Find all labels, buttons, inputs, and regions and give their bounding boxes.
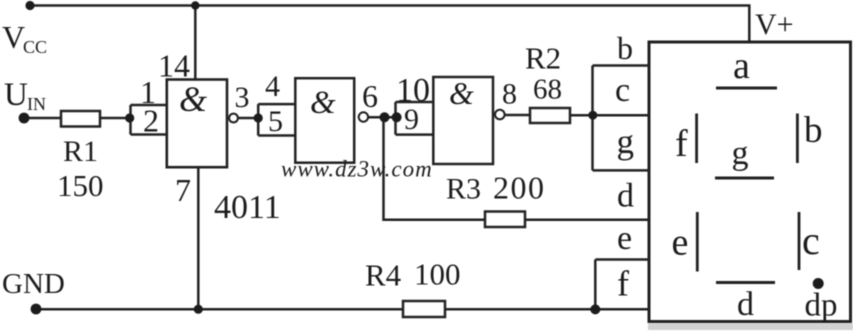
wire R3 to pin d: [525, 219, 650, 222]
segment d bar: [716, 281, 775, 284]
svg-text:www.dz3w.com: www.dz3w.com: [281, 156, 433, 181]
segment f bar: [695, 114, 698, 164]
node GND terminal: [31, 304, 42, 315]
label Vcc: [2, 19, 47, 57]
svg-text:e: e: [672, 222, 689, 264]
gate U1C 4011 NAND: [433, 77, 493, 164]
wire pin 6 out: [368, 116, 396, 119]
node pin 6 junction A: [380, 112, 390, 122]
wire pins 9-10 tie: [396, 102, 434, 135]
svg-text:V+: V+: [755, 8, 794, 41]
svg-text:4: 4: [265, 70, 280, 103]
svg-text:7: 7: [175, 172, 191, 208]
resistor R2: [530, 108, 570, 123]
svg-text:b: b: [617, 30, 633, 66]
wire node 6 down to R3: [384, 117, 486, 220]
wire GND to R4: [36, 308, 403, 311]
svg-text:CC: CC: [23, 37, 47, 57]
display DS1 seven-segment: [649, 42, 851, 322]
wire pin 14: [194, 6, 197, 80]
node pin 14 rail junction: [191, 1, 199, 9]
wire pin 8 to R2: [505, 114, 531, 117]
node Vcc rail terminal: [25, 1, 34, 10]
svg-text:2: 2: [143, 102, 159, 138]
wire pins e-f tie: [595, 260, 649, 310]
resistor R3: [485, 212, 525, 228]
svg-text:d: d: [737, 286, 754, 323]
node pin 6 junction B: [392, 112, 402, 122]
svg-text:4011: 4011: [214, 189, 281, 226]
segment c bar: [798, 212, 801, 270]
segment e bar: [696, 212, 699, 272]
node pin 7 GND junction: [194, 305, 203, 314]
svg-text:&: &: [310, 85, 336, 121]
wire pin 3 to pins 4-5: [238, 117, 258, 120]
svg-text:R4: R4: [365, 258, 402, 293]
node Uin terminal: [19, 113, 30, 124]
segment a bar: [716, 87, 777, 90]
svg-text:a: a: [733, 45, 750, 87]
gate U1A 4011 NAND: [167, 80, 227, 168]
wire R4 to pin f: [445, 308, 650, 311]
svg-text:V: V: [2, 19, 25, 55]
bubble pin 8: [495, 110, 505, 120]
node b-c-g junction: [588, 111, 597, 120]
wire pins 4-5 tie: [258, 104, 295, 135]
wire pin 7: [197, 167, 200, 309]
svg-text:GND: GND: [2, 268, 65, 300]
svg-text:d: d: [617, 178, 634, 215]
wire pins 1-2 tie: [131, 105, 167, 135]
svg-text:f: f: [617, 264, 629, 304]
resistor R4: [403, 301, 445, 317]
wire R1 to input node: [100, 117, 131, 120]
segment b bar: [796, 114, 799, 164]
svg-text:IN: IN: [27, 94, 46, 114]
wire Uin to R1: [24, 117, 61, 120]
svg-text:6: 6: [362, 78, 378, 114]
svg-text:8: 8: [502, 78, 517, 111]
svg-text:b: b: [804, 110, 823, 151]
segment g bar: [715, 177, 774, 180]
svg-text:150: 150: [57, 168, 104, 203]
wire V+ rail: [30, 6, 749, 43]
resistor R1: [61, 111, 100, 127]
svg-text:R2: R2: [525, 41, 561, 76]
node pin 3 junction: [254, 113, 263, 122]
svg-text:c: c: [615, 72, 630, 109]
svg-text:R3: R3: [446, 173, 481, 206]
node e-f junction: [590, 304, 600, 314]
svg-text:68: 68: [533, 74, 562, 106]
wire R2 to node: [570, 114, 593, 117]
wire pins b-c-g tie: [593, 66, 650, 171]
label Uin: [4, 77, 46, 114]
svg-text:g: g: [617, 122, 635, 161]
svg-text:100: 100: [414, 257, 461, 292]
display dp dot: [813, 278, 824, 289]
node input junction: [125, 113, 134, 122]
svg-text:9: 9: [404, 103, 419, 136]
svg-text:5: 5: [268, 105, 283, 138]
svg-text:200: 200: [493, 170, 546, 206]
svg-text:g: g: [732, 135, 749, 172]
svg-text:f: f: [675, 123, 688, 165]
scan shadow under display: [648, 324, 853, 331]
bubble pin 6: [359, 112, 368, 121]
svg-text:R1: R1: [63, 135, 98, 168]
svg-text:3: 3: [235, 81, 250, 114]
svg-text:U: U: [4, 77, 28, 113]
bubble pin 3: [229, 114, 238, 123]
svg-text:e: e: [617, 220, 632, 257]
svg-text:&: &: [449, 75, 474, 111]
svg-text:&: &: [179, 79, 207, 119]
svg-text:c: c: [802, 218, 820, 263]
svg-text:dp: dp: [805, 288, 838, 324]
gate U1B 4011 NAND: [295, 78, 354, 163]
